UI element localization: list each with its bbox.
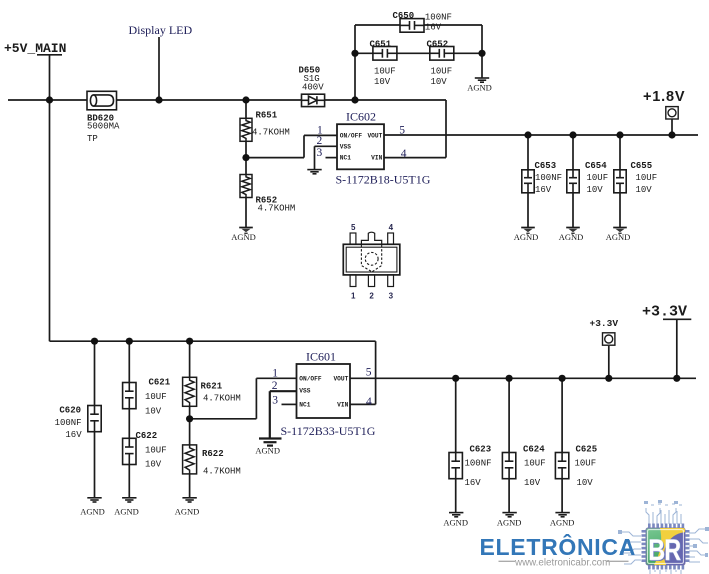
svg-text:3: 3 [317,147,323,159]
svg-text:AGND: AGND [550,518,575,528]
svg-text:VIN: VIN [337,401,348,408]
svg-text:4.7KOHM: 4.7KOHM [203,467,241,477]
svg-text:10UF: 10UF [587,173,609,183]
svg-text:400V: 400V [302,83,324,93]
svg-text:S-1172B18-U5T1G: S-1172B18-U5T1G [336,173,431,187]
svg-text:5: 5 [399,124,405,136]
svg-text:R651: R651 [256,111,278,121]
svg-text:3: 3 [272,394,278,406]
svg-text:AGND: AGND [443,518,468,528]
svg-text:10V: 10V [587,185,604,195]
svg-text:100NF: 100NF [535,173,562,183]
svg-text:C620: C620 [59,405,81,415]
svg-text:AGND: AGND [80,506,105,516]
svg-text:C652: C652 [427,39,449,49]
svg-text:AGND: AGND [514,232,539,242]
svg-text:C622: C622 [136,431,158,441]
svg-text:2: 2 [369,292,374,301]
svg-text:TP: TP [87,134,98,144]
svg-text:AGND: AGND [497,518,522,528]
svg-text:5: 5 [366,367,372,379]
svg-text:C624: C624 [523,445,545,455]
svg-text:C655: C655 [631,161,653,171]
svg-text:VSS: VSS [340,143,351,150]
svg-text:10UF: 10UF [145,392,167,402]
svg-text:www.eletronicabr.com: www.eletronicabr.com [514,558,610,569]
svg-text:4.7KOHM: 4.7KOHM [258,203,296,213]
svg-text:16V: 16V [535,185,552,195]
svg-text:NC1: NC1 [340,155,351,162]
svg-text:VSS: VSS [299,387,310,394]
svg-text:ON/OFF: ON/OFF [299,375,322,382]
svg-text:16V: 16V [425,23,442,33]
svg-text:R622: R622 [202,449,224,459]
svg-text:5: 5 [351,223,356,232]
svg-text:C625: C625 [576,445,598,455]
svg-text:C654: C654 [585,161,607,171]
svg-text:IC601: IC601 [306,350,336,364]
svg-text:NC1: NC1 [299,401,310,408]
svg-text:Display LED: Display LED [129,23,193,37]
svg-text:3: 3 [389,292,394,301]
svg-text:16V: 16V [65,430,82,440]
svg-text:BR: BR [648,533,681,566]
svg-text:1: 1 [351,292,356,301]
svg-text:4: 4 [389,223,394,232]
svg-text:100NF: 100NF [425,13,452,23]
svg-text:10UF: 10UF [145,446,167,456]
svg-text:ELETRÔNICA: ELETRÔNICA [480,533,637,560]
svg-text:10UF: 10UF [636,173,658,183]
svg-text:AGND: AGND [231,232,256,242]
svg-text:AGND: AGND [114,506,139,516]
svg-text:+5V_MAIN: +5V_MAIN [4,41,66,56]
svg-text:10UF: 10UF [575,459,597,469]
svg-text:AGND: AGND [175,506,200,516]
svg-text:VOUT: VOUT [367,133,382,140]
svg-text:2: 2 [272,380,278,392]
svg-text:4.7KOHM: 4.7KOHM [203,394,241,404]
svg-text:+3.3V: +3.3V [590,318,619,329]
svg-text:IC602: IC602 [346,110,376,124]
svg-text:R621: R621 [201,381,223,391]
svg-text:C650: C650 [393,11,415,21]
svg-text:10V: 10V [431,77,448,87]
svg-text:+3.3V: +3.3V [642,304,687,321]
svg-text:ON/OFF: ON/OFF [340,133,363,140]
svg-text:C621: C621 [149,377,171,387]
svg-text:VOUT: VOUT [333,375,348,382]
svg-text:10UF: 10UF [524,459,546,469]
svg-text:10V: 10V [636,185,653,195]
svg-text:1: 1 [272,368,278,380]
svg-text:100NF: 100NF [55,418,82,428]
svg-text:10V: 10V [374,77,391,87]
svg-text:2: 2 [317,135,323,147]
svg-text:C623: C623 [470,445,492,455]
svg-text:16V: 16V [465,478,482,488]
svg-text:+1.8V: +1.8V [643,89,685,105]
svg-text:4.7KOHM: 4.7KOHM [252,127,290,137]
svg-text:AGND: AGND [255,446,280,456]
svg-text:10V: 10V [145,460,162,470]
svg-text:4: 4 [401,148,407,160]
svg-text:10UF: 10UF [374,67,396,77]
svg-text:5000MA: 5000MA [87,122,120,132]
svg-text:C653: C653 [535,161,557,171]
svg-text:10UF: 10UF [431,67,453,77]
svg-text:10V: 10V [145,406,162,416]
svg-text:C651: C651 [370,39,392,49]
svg-text:VIN: VIN [371,155,382,162]
svg-text:AGND: AGND [606,232,631,242]
svg-text:10V: 10V [524,478,541,488]
svg-text:S-1172B33-U5T1G: S-1172B33-U5T1G [281,424,376,438]
svg-text:10V: 10V [577,478,594,488]
svg-text:4: 4 [366,396,372,408]
svg-text:100NF: 100NF [465,459,492,469]
svg-text:AGND: AGND [467,82,492,92]
svg-text:AGND: AGND [559,232,584,242]
